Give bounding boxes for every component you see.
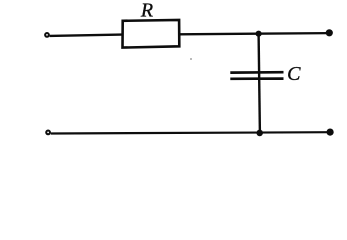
output terminal top-right (filled dot) [326, 29, 333, 36]
svg-text:R: R [140, 0, 153, 22]
output terminal bottom-right (filled dot) [327, 129, 334, 136]
node (bottom junction dot) [256, 130, 263, 137]
resistor R [123, 20, 180, 48]
capacitor C top plate [230, 71, 283, 74]
capacitor C bottom plate [230, 77, 283, 80]
wire (capacitor vertical lead) [259, 34, 260, 133]
wire (top-right: resistor to output terminal) [180, 33, 330, 34]
input terminal bottom-left (open circle) [46, 131, 50, 135]
wire (top-left: input terminal to resistor) [50, 35, 122, 36]
scan speck [190, 58, 192, 60]
wire (bottom rail) [51, 132, 331, 133]
node (top junction dot) [256, 31, 262, 37]
svg-text:C: C [287, 63, 301, 85]
input terminal top-left (open circle) [45, 33, 49, 37]
